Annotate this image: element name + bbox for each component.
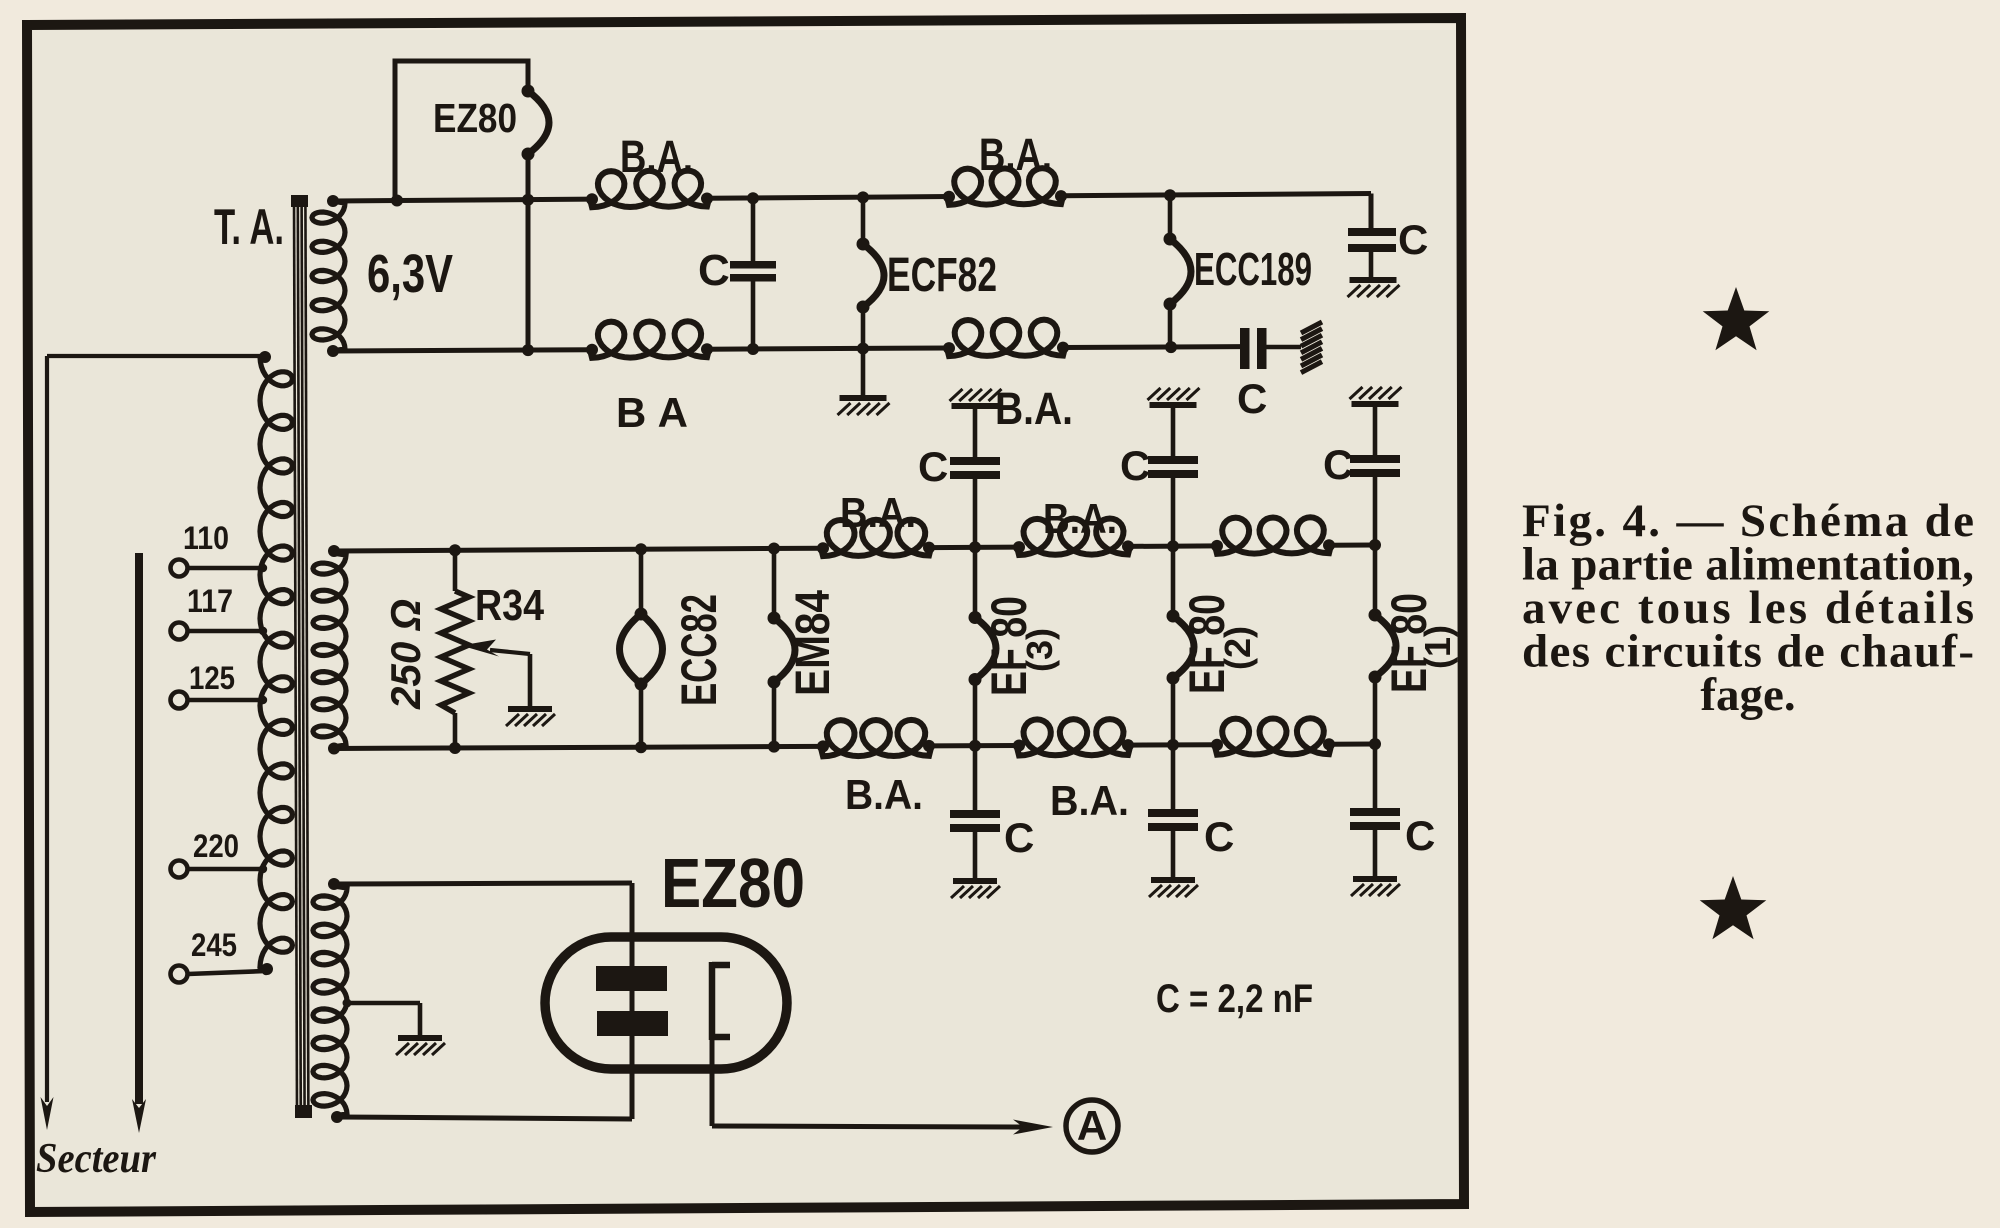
heater EF80 (3) [973, 550, 978, 618]
node rail3 x1375 [1369, 539, 1381, 551]
heater EF80 (2) [1171, 548, 1176, 616]
wire anode vertical [630, 883, 635, 1119]
wire EZ80 box [395, 61, 528, 201]
inductor B.A. 1 [590, 171, 709, 208]
junction HT top [328, 878, 340, 890]
node rail1 x863 [857, 191, 869, 203]
tap 117 [171, 623, 188, 640]
node A [1066, 1100, 1118, 1152]
ground C8 [1151, 877, 1195, 883]
node rail3 x823 [817, 542, 829, 554]
capacitor C6 [1350, 455, 1400, 463]
arrowhead secteur 1 [41, 1097, 54, 1130]
wire HT center tap [347, 1001, 420, 1006]
node rail4 x1375 [1369, 738, 1381, 750]
inductor B.A. 2 [947, 168, 1063, 205]
svg-text:250 Ω: 250 Ω [382, 599, 429, 710]
heater EM84 [772, 548, 777, 618]
node rail1 x1061 [1055, 190, 1067, 202]
wire heater rail 3 [334, 548, 823, 551]
inductor B.A. 4 [947, 320, 1065, 356]
svg-text:EZ80: EZ80 [433, 95, 517, 141]
wire HT top [334, 883, 632, 884]
wire HT bottom [337, 1117, 632, 1119]
svg-text:C: C [918, 443, 948, 490]
node rail2 x528 [522, 344, 534, 356]
node rail2 x592 [586, 344, 598, 356]
wire ground-cap col2 [1171, 405, 1176, 456]
tap 245 [171, 966, 188, 983]
svg-text:6,3V: 6,3V [367, 244, 453, 304]
ground C9 [1353, 876, 1397, 882]
node rail3 x1019 [1013, 541, 1025, 553]
wire rail4-cap col C8 [1171, 746, 1176, 809]
node rail4 x1217 [1211, 739, 1223, 751]
svg-text:B.A.: B.A. [995, 383, 1073, 434]
node rail2 x863 [857, 343, 869, 355]
node rail3 x641 [635, 543, 647, 555]
svg-text:B.A.: B.A. [1043, 495, 1117, 542]
svg-text:(2): (2) [1217, 626, 1258, 670]
svg-text:T. A.: T. A. [214, 199, 284, 255]
wire heater rail 4 [334, 746, 823, 748]
wire cathode out [710, 1040, 715, 1126]
svg-text:C: C [1204, 813, 1234, 860]
wire heater rail 1 [333, 199, 592, 201]
capacitor C5 [1148, 456, 1198, 464]
node rail4 x1329 [1323, 738, 1335, 750]
svg-text:C: C [1323, 441, 1353, 488]
inductor B.A. 10 [1215, 718, 1331, 754]
wire secteur line 2 (thick) [135, 553, 143, 1104]
tube EZ80 envelope [545, 937, 787, 1069]
inductor B.A. 3 [590, 321, 709, 358]
node rail3 x975 [969, 541, 981, 553]
node rail4 x334 [328, 743, 340, 755]
capacitor C7 [950, 810, 1000, 818]
transformer primary winding [260, 355, 292, 969]
svg-text:(1): (1) [1417, 625, 1458, 669]
capacitor C3 (series) [1240, 328, 1250, 369]
node rail1 x707 [701, 193, 713, 205]
star ornament top [1703, 287, 1770, 350]
node rail1 x753 [747, 192, 759, 204]
cathode EZ80 [712, 962, 730, 969]
capacitor C9 [1350, 808, 1400, 816]
ground top col1 [952, 403, 999, 409]
node rail4 x1019 [1013, 740, 1025, 752]
node rail4 x975 [969, 740, 981, 752]
node rail3 x1128 [1122, 540, 1134, 552]
node rail2 x949 [943, 342, 955, 354]
arrowhead secteur 2 [132, 1099, 146, 1133]
svg-text:B.A.: B.A. [620, 131, 693, 182]
node rail2 x753 [747, 343, 759, 355]
wire ground-cap col1 [973, 406, 978, 457]
anode plates EZ80 [596, 966, 667, 991]
node rail2 x1171 [1165, 341, 1177, 353]
inductor B.A. 9 [1017, 719, 1130, 755]
winding HT secondary [313, 886, 347, 1116]
ground C2 [1350, 277, 1397, 283]
ground C7 [953, 878, 997, 884]
capacitor C4 [950, 457, 1000, 465]
svg-text:125: 125 [189, 660, 235, 696]
heater ECF82 [861, 197, 866, 244]
svg-text:ECF82: ECF82 [887, 249, 997, 302]
node rail4 x929 [923, 740, 935, 752]
pin EZ80 heater bottom [522, 148, 535, 161]
heater ECC189 [1168, 195, 1173, 239]
ground HT center tap [398, 1035, 442, 1041]
wire rail4-cap col C7 [973, 747, 978, 810]
node rail2 x1063 [1057, 342, 1069, 354]
junction primary top [259, 351, 271, 363]
wiper arrow R34 [461, 640, 499, 657]
wire rail1 right end down [1369, 194, 1374, 230]
inductor B.A. 6 [1017, 519, 1130, 556]
svg-text:C: C [1004, 814, 1034, 861]
svg-text:ECC189: ECC189 [1194, 243, 1312, 295]
node rail1 x949 [943, 191, 955, 203]
node rail2 x707 [701, 343, 713, 355]
svg-text:C: C [1120, 442, 1150, 489]
node rail3 x1217 [1211, 540, 1223, 552]
star ornament bottom [1700, 876, 1767, 939]
ground wiper [508, 706, 552, 712]
node rail3 x774 [768, 543, 780, 555]
node rail1 x592 [586, 193, 598, 205]
wire secteur line 1 [45, 356, 49, 1102]
tap 110 [171, 560, 188, 577]
ground block (hatched) [1301, 322, 1322, 333]
svg-text:C = 2,2 nF: C = 2,2 nF [1156, 977, 1313, 1021]
heater EZ80 (top) [528, 91, 549, 154]
transformer T.A. laminated core [294, 198, 297, 1117]
node rail4 x1128 [1122, 739, 1134, 751]
inductor B.A. 8 [821, 720, 931, 756]
svg-text:EM84: EM84 [787, 590, 840, 696]
ground top col3 [1352, 401, 1399, 407]
svg-text:C: C [1405, 812, 1435, 859]
inductor B.A. 5 [821, 520, 931, 557]
capacitor C1 [751, 198, 756, 262]
winding 6,3V [312, 201, 345, 351]
tap 220 [171, 861, 188, 878]
node rail3 x1329 [1323, 539, 1335, 551]
capacitor C8 [1148, 809, 1198, 817]
svg-text:B.A.: B.A. [1050, 777, 1129, 824]
winding secondary 2 [313, 553, 346, 747]
svg-text:245: 245 [191, 927, 237, 963]
inductor B.A. 7 [1215, 517, 1331, 554]
svg-text:B.A.: B.A. [840, 489, 916, 536]
svg-text:(3): (3) [1019, 628, 1060, 672]
wire primary top to left [47, 354, 265, 358]
svg-text:EZ80: EZ80 [661, 844, 805, 922]
junction primary bottom [261, 963, 273, 975]
node rail1 x397 [391, 195, 403, 207]
node rail3 x334 [328, 545, 340, 557]
wire ECF82 ground stem [861, 349, 866, 397]
node rail1 x528 [522, 194, 534, 206]
svg-text:C: C [1398, 216, 1428, 263]
junction 6,3V bottom [327, 345, 339, 357]
pin EZ80 heater top [522, 85, 535, 98]
node rail4 x1173 [1167, 739, 1179, 751]
svg-text:C: C [1237, 375, 1267, 422]
wire rail4-cap col C9 [1373, 746, 1378, 809]
svg-text:110: 110 [183, 520, 229, 556]
svg-text:117: 117 [187, 583, 233, 619]
svg-text:220: 220 [193, 828, 239, 864]
node rail1 x1170 [1164, 189, 1176, 201]
svg-text:R34: R34 [475, 581, 544, 630]
svg-text:B.A.: B.A. [845, 771, 923, 818]
svg-text:fage.: fage. [1700, 669, 1795, 721]
heater ECC82 [639, 549, 644, 614]
node rail4 x823 [817, 740, 829, 752]
wire ground-cap col3 [1373, 404, 1378, 455]
svg-text:Secteur: Secteur [36, 1136, 157, 1182]
node rail4 x774 [768, 741, 780, 753]
node rail4 x641 [635, 741, 647, 753]
junction 6,3V top [327, 195, 339, 207]
tap 125 [171, 692, 188, 709]
wire EZ80 heater down [526, 154, 531, 350]
ground top col2 [1150, 402, 1197, 408]
potentiometer R34 [453, 550, 458, 591]
arrowhead to A [1013, 1120, 1053, 1135]
heater EF80 (1) [1373, 547, 1378, 615]
wire heater rail 2 [333, 350, 592, 351]
svg-text:A: A [1077, 1102, 1107, 1149]
node rail3 x1173 [1167, 540, 1179, 552]
svg-text:B.A.: B.A. [979, 129, 1052, 180]
svg-text:C: C [698, 246, 730, 295]
node rail4 x455 [449, 742, 461, 754]
node rail3 x455 [449, 544, 461, 556]
ground ECF82 [840, 395, 887, 401]
capacitor C2 [1348, 228, 1396, 236]
wire wiper to ground [528, 654, 533, 707]
svg-text:ECC82: ECC82 [671, 594, 727, 706]
svg-text:B A: B A [616, 389, 688, 436]
junction HT bottom [331, 1111, 343, 1123]
node rail3 x929 [923, 542, 935, 554]
